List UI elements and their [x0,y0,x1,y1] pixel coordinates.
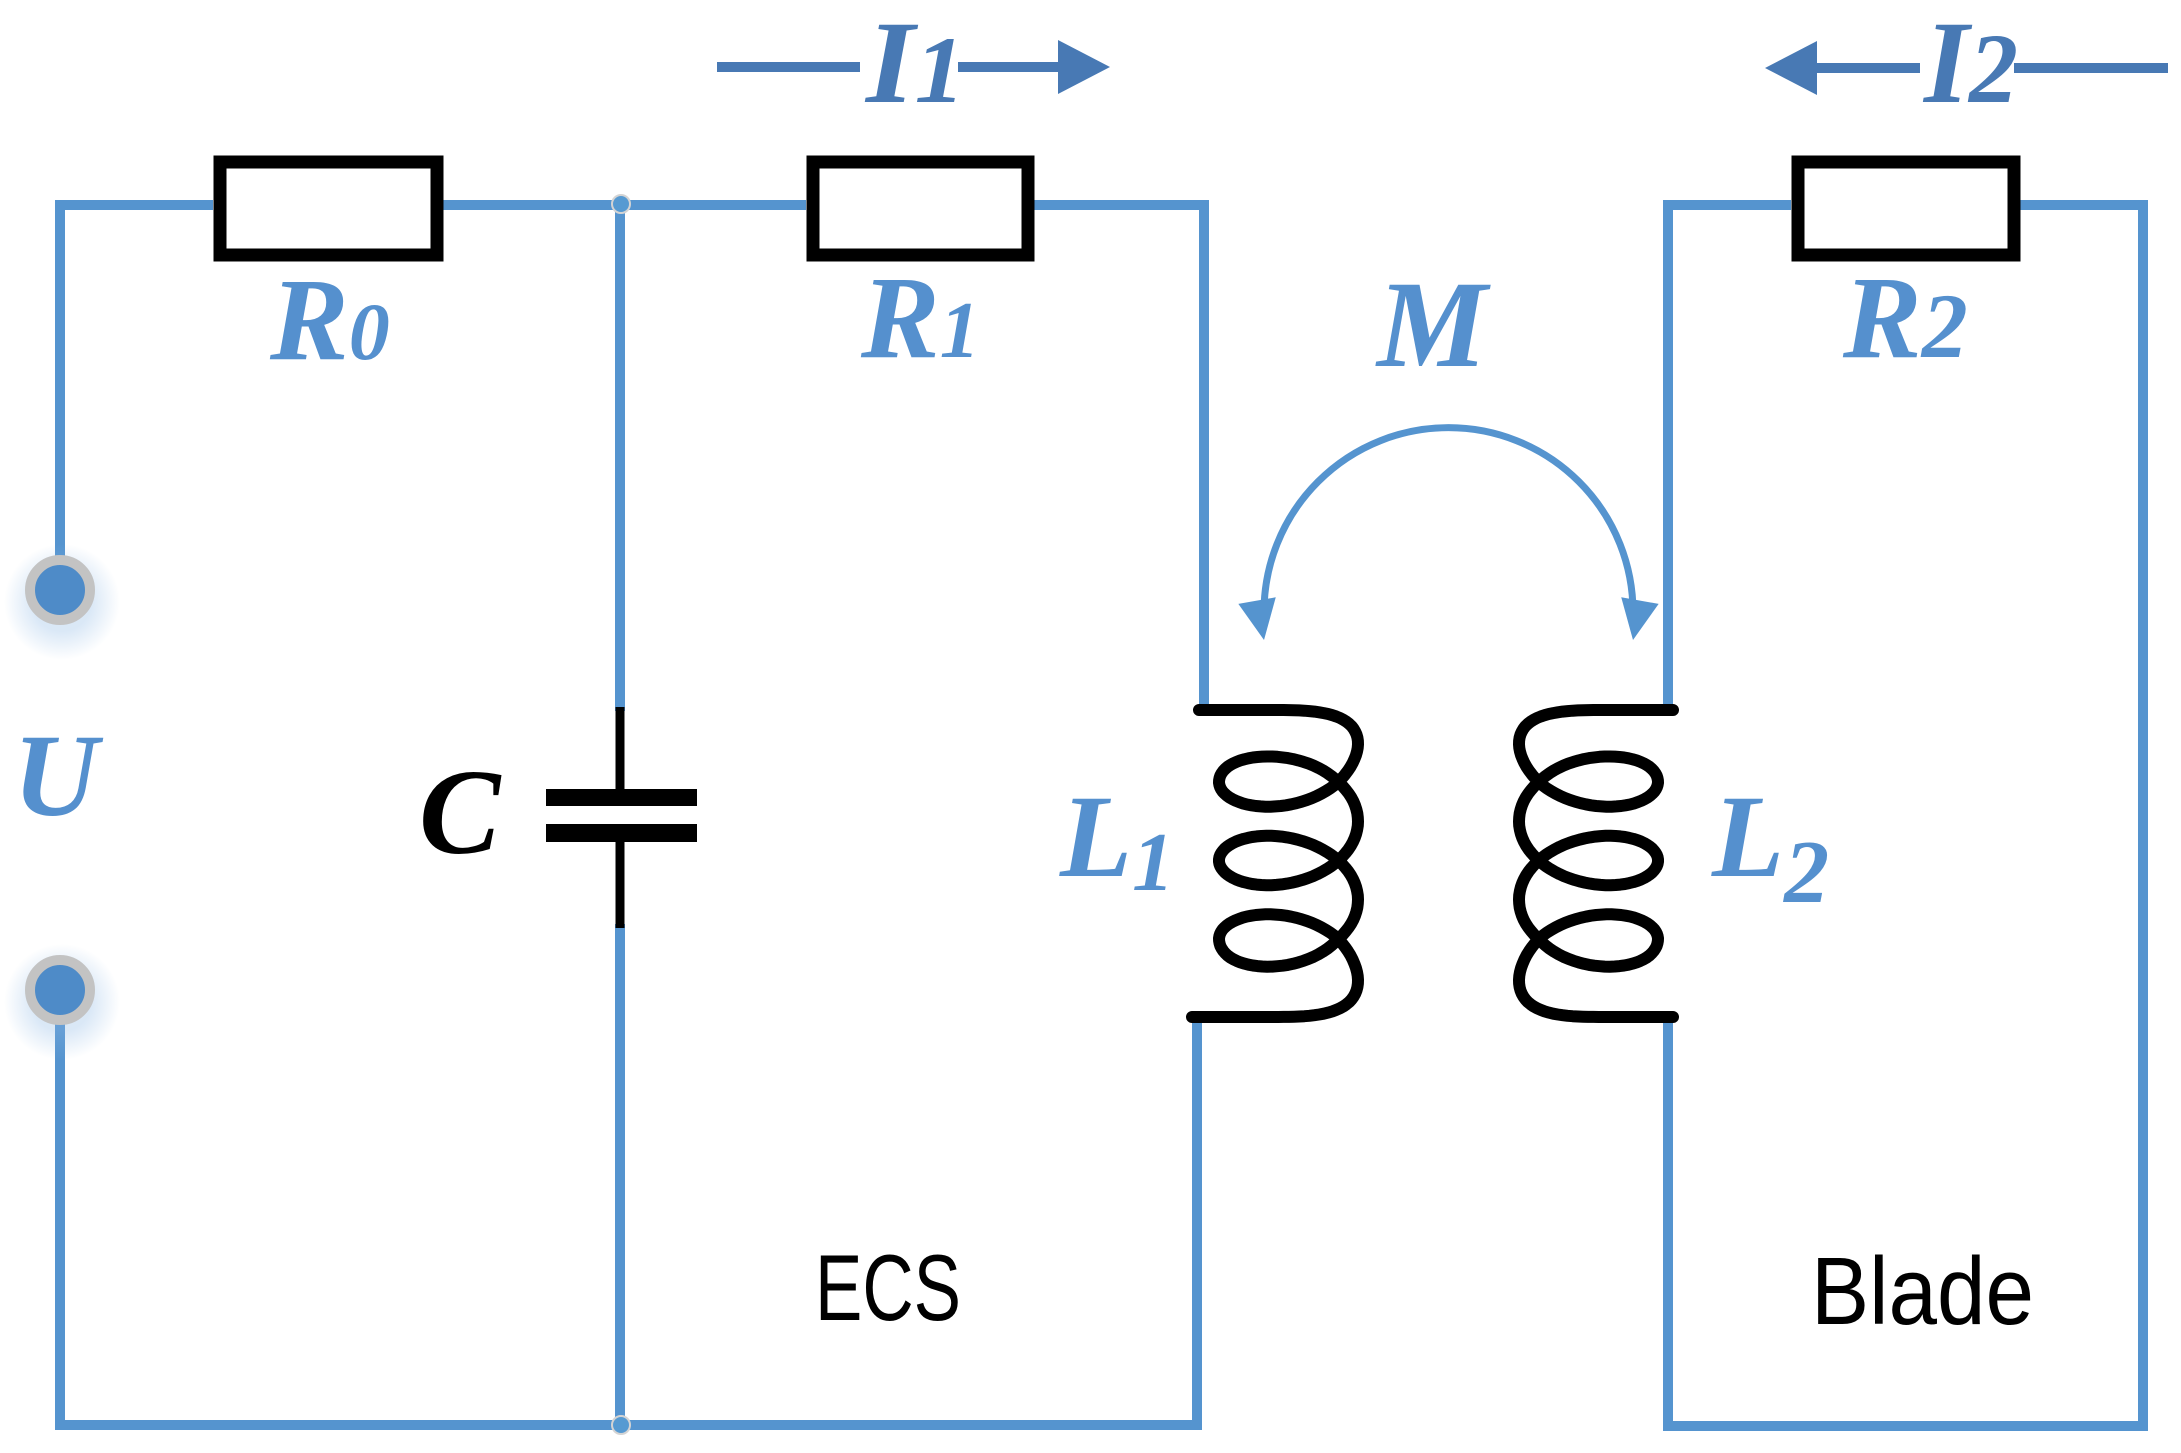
inductor L2 coil [1519,710,1673,1017]
svg-text:M: M [1375,256,1491,393]
wire: right loop top, from L2 up over R2 and down right side, bottom back to L2 [1668,205,1791,706]
terminal upper (U+) [30,560,90,620]
current I1 arrow line [717,62,860,72]
svg-text:U: U [13,710,104,841]
bottom junction dot [612,1416,630,1434]
current I2 arrowhead [1765,41,1817,95]
current I1 arrowhead [1058,40,1110,94]
node A junction dot [612,195,630,213]
current I2 arrow line [1800,63,1920,73]
wire: left rail lower segment from terminal down and bottom wire to L1 [60,1018,1197,1425]
M arc right arrowhead [1614,597,1658,643]
svg-text:Blade: Blade [1811,1238,2034,1345]
wire: capacitor branch from node A down to bottom wire [615,205,625,711]
svg-text:I1: I1 [864,0,965,128]
resistor R2 [1798,162,2014,255]
terminal lower (U-) [30,960,90,1020]
resistor R0 [220,162,437,255]
capacitor C plates and leads [616,707,625,790]
wire: R1 right lead and vertical down to L1 [1034,205,1204,706]
M arc left arrowhead [1238,597,1282,643]
svg-text:I2: I2 [1922,0,2018,128]
svg-text:ECS: ECS [815,1235,961,1340]
terminal upper glow [4,544,120,660]
mutual inductance M coupling arc [1264,428,1633,612]
svg-text:C: C [419,745,502,880]
resistor R1 [813,162,1028,255]
wire: R0 to R1 through node A [443,200,806,210]
wire: top-left horizontal from source to R0 [60,205,213,557]
terminal lower glow [4,944,120,1060]
inductor L1 coil [1192,710,1358,1017]
